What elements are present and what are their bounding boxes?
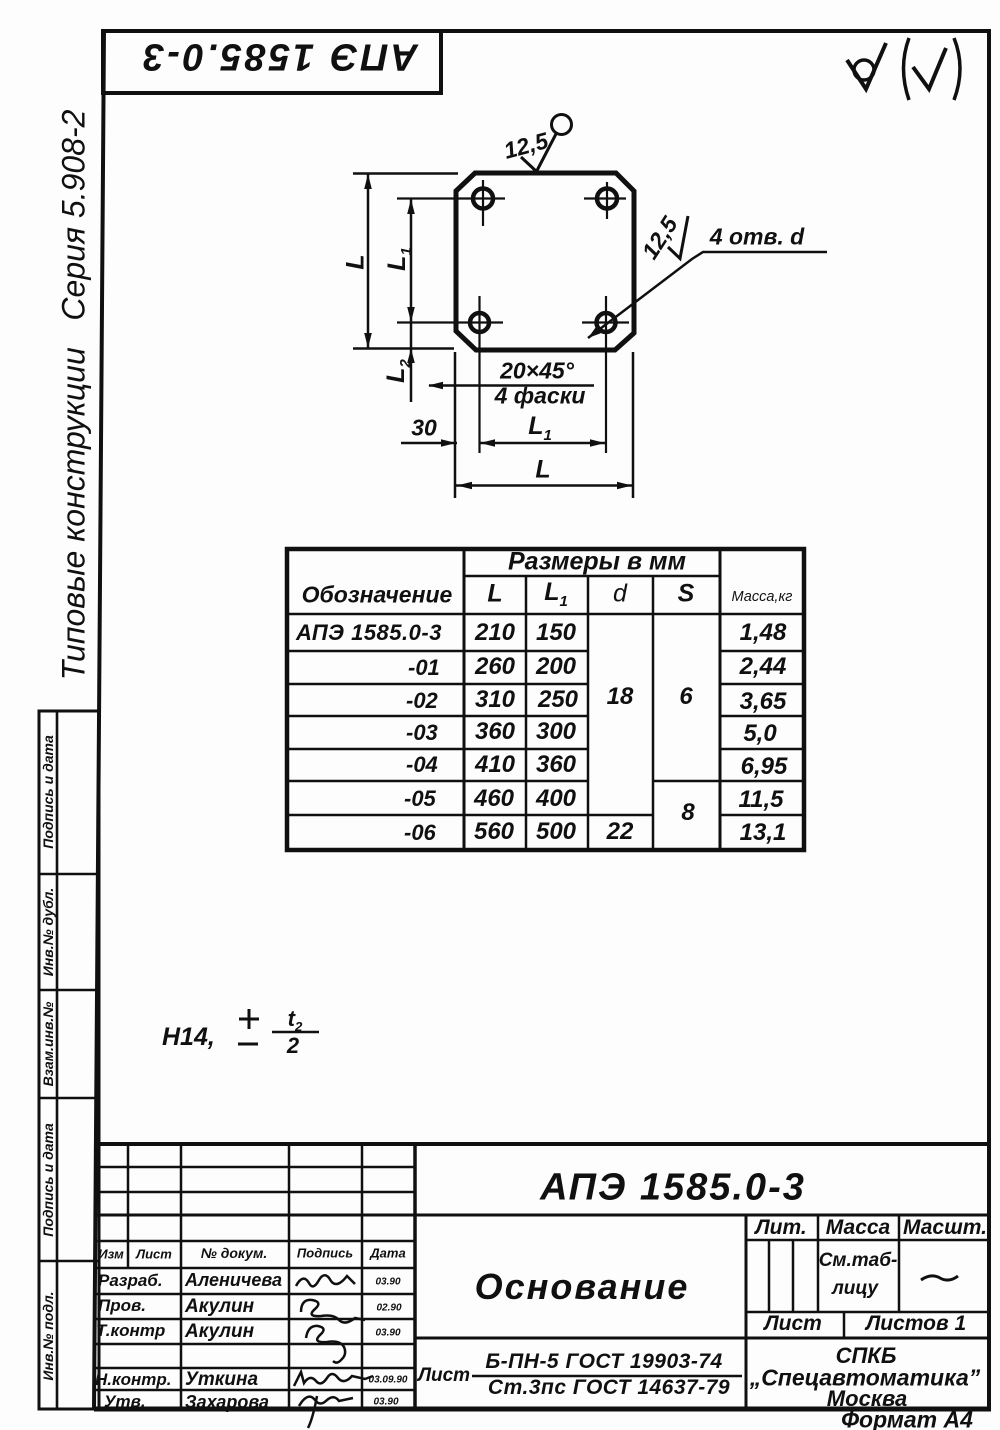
title block row line razrab	[95, 1293, 415, 1296]
frame right border	[987, 29, 991, 1410]
title block header row bottom line	[95, 1267, 415, 1270]
roughness value 12,5 on leader	[636, 212, 683, 264]
title block massa/masht divider	[898, 1215, 901, 1312]
extension line top for L	[353, 172, 458, 175]
title block upper grid row line 2	[95, 1191, 415, 1194]
chamfer note 20x45	[500, 358, 574, 385]
dimension 30 horizontal	[401, 439, 457, 447]
tolerance fraction t2	[288, 1006, 303, 1034]
extension line plate left edge down	[454, 352, 457, 498]
hole callout leader 4 otv d	[588, 252, 827, 338]
table row line 1	[287, 650, 804, 653]
signature prov	[301, 1300, 365, 1323]
table row 5	[406, 752, 438, 778]
H14 tolerance note plus-minus and fraction	[238, 1009, 319, 1044]
title block masht header	[903, 1216, 987, 1240]
table row 4	[406, 720, 438, 746]
extension line plate right edge down	[632, 352, 635, 498]
title block right section vertical divider	[745, 1215, 748, 1409]
stamp label podpis i data 2	[40, 1123, 56, 1236]
signature utv	[299, 1396, 353, 1428]
table row 1 values	[475, 619, 515, 647]
title block list/listov divider	[843, 1312, 846, 1338]
table line under column headers	[287, 613, 804, 616]
title block list/listov row top line	[746, 1311, 989, 1314]
table header oboznachenie	[302, 582, 453, 609]
title block organization spkb	[836, 1343, 897, 1369]
table row line 6	[287, 814, 804, 817]
title block row tkontr	[96, 1321, 165, 1341]
title block name osnovanie	[475, 1266, 690, 1308]
title block vertical izm/list divider	[127, 1144, 130, 1268]
title block vertical ndokum/podpis divider	[288, 1144, 291, 1409]
frame bottom border	[94, 1407, 991, 1412]
table header S	[678, 580, 695, 609]
label L vertical	[342, 254, 371, 269]
left margin series text	[56, 110, 93, 681]
title block header n dokum	[201, 1245, 267, 1261]
table row line 2	[287, 683, 804, 686]
left stamp divider podpis2/inv.podl	[39, 1260, 99, 1263]
label L1 horizontal	[528, 412, 552, 444]
title block header data	[370, 1246, 405, 1261]
title block designation АПЭ 1585.0-3	[540, 1167, 806, 1210]
table vertical line S column	[719, 549, 722, 850]
title block header list	[136, 1247, 172, 1262]
hole top-right	[584, 182, 626, 219]
title block lit sub-divider 1	[768, 1240, 771, 1312]
table row line 5	[287, 780, 804, 783]
dimension L vertical	[364, 174, 372, 349]
format a4 note	[841, 1407, 973, 1430]
masshtab wavy dash	[921, 1276, 958, 1280]
hole bottom-left	[470, 313, 489, 332]
stamp label inv n podl	[40, 1291, 56, 1380]
title block list label	[764, 1312, 822, 1336]
title block bottom band top line	[415, 1337, 989, 1340]
title block lit sub-divider 2	[792, 1240, 795, 1312]
roughness value 12,5 top	[501, 127, 551, 165]
table merged S value 8	[681, 799, 694, 827]
title block sm tablitsu	[819, 1250, 898, 1272]
label L horizontal	[535, 456, 550, 485]
title block list label left of fraction	[418, 1365, 470, 1387]
table vertical line designation column	[463, 549, 466, 850]
title block row utv	[104, 1392, 146, 1412]
table vertical line L column	[525, 576, 528, 850]
table row 3	[406, 688, 438, 714]
chamfer note 4 faski	[495, 383, 586, 410]
title block row line prov	[95, 1318, 415, 1321]
title block main vertical divider	[413, 1144, 417, 1409]
label 30	[411, 415, 437, 442]
roughness symbol in parentheses top right	[904, 38, 961, 100]
label L2 vertical	[382, 359, 414, 383]
title block header izm	[98, 1247, 123, 1262]
left margin stamp column outer box	[39, 711, 99, 1409]
title block lit/massa divider	[817, 1215, 820, 1312]
centerline extension top-left hole horizontal	[397, 197, 505, 199]
title block massa header	[826, 1216, 890, 1240]
title block lit massa masht header underline	[746, 1239, 989, 1242]
centerline extension bottom-left hole horizontal	[397, 321, 503, 323]
table row 7	[404, 820, 436, 846]
table vertical line d column	[652, 576, 655, 850]
title block row line tkontr	[95, 1343, 415, 1346]
title block row prov	[98, 1296, 146, 1316]
extension line bottom for L	[353, 347, 454, 350]
stamp label inv n dubl	[40, 888, 56, 977]
title block row line nkontr	[95, 1389, 415, 1392]
title block vertical list/ndokum divider	[180, 1144, 183, 1409]
label L1 vertical	[383, 247, 415, 271]
hole callout text 4 otv. d	[710, 224, 804, 251]
signature nkontr	[294, 1372, 373, 1386]
plate outline with chamfered corners	[456, 173, 634, 350]
signature razrab	[296, 1275, 355, 1286]
dimensions table outer border	[287, 549, 804, 850]
title block gost fraction bar	[472, 1375, 742, 1378]
stamp label podpis i data 1	[40, 735, 56, 848]
table merged S value 6	[679, 683, 692, 711]
tolerance fraction denominator 2	[287, 1033, 299, 1059]
left stamp column divider	[56, 711, 59, 1409]
table row 6	[404, 786, 436, 812]
dimension L horizontal	[456, 482, 633, 490]
title block material gost upper	[485, 1350, 722, 1374]
top-left inverted designation box	[103, 31, 441, 93]
left stamp divider inv.dubl/vzam	[39, 989, 99, 992]
title block line under designation cell	[95, 1214, 989, 1217]
dimension L1 horizontal	[480, 439, 605, 447]
frame top border	[101, 29, 991, 33]
table vertical line L1 column	[587, 576, 590, 850]
left stamp divider podpis/inv.dubl	[39, 873, 99, 876]
title block row nkontr	[95, 1370, 172, 1390]
title block header podpis	[297, 1246, 353, 1261]
roughness symbol unmachined (check with circle) top right	[847, 43, 886, 89]
chamfer note fraction bar with leader arrow	[428, 382, 594, 390]
hole bottom-right	[582, 313, 629, 332]
table header massa kg	[732, 589, 793, 605]
table header d	[613, 580, 627, 609]
title block upper grid row line 1	[95, 1166, 415, 1169]
centerline extension bottom-right hole vertical	[605, 296, 607, 453]
signature tkontr	[306, 1326, 345, 1363]
centerline extension bottom-left hole vertical	[478, 296, 480, 453]
table merged d value 18	[607, 683, 634, 711]
inverted designation text АПЭ 1585.0-3	[140, 35, 418, 78]
title block header row top line	[95, 1240, 415, 1243]
dimension L1 vertical	[407, 199, 415, 323]
dimension L2 vertical with outside arrow	[407, 323, 415, 403]
table header line under razmery	[464, 575, 720, 578]
roughness check on plate top edge with circle	[521, 115, 572, 172]
stamp label vzam inv n	[40, 1002, 56, 1087]
frame left border	[94, 29, 104, 1410]
roughness check on hole leader	[668, 216, 688, 259]
title block row razrab	[98, 1271, 163, 1291]
title block lit header	[755, 1216, 807, 1240]
table row line 4	[287, 748, 804, 751]
table header razmery v mm	[508, 548, 686, 577]
title block vertical podpis/data divider	[361, 1144, 364, 1409]
table row 2	[408, 655, 440, 681]
table header L	[487, 580, 502, 609]
left stamp divider vzam/podpis2	[39, 1097, 99, 1100]
title block row line blank	[95, 1367, 415, 1370]
table row line 3	[287, 715, 804, 718]
title block material gost lower	[488, 1376, 730, 1400]
table row 1 designation	[296, 620, 442, 646]
title block top border	[95, 1142, 989, 1146]
hole top-left	[473, 180, 493, 226]
title block listov 1	[866, 1312, 966, 1336]
table header L1	[544, 578, 568, 610]
tolerance note H14	[162, 1023, 215, 1052]
